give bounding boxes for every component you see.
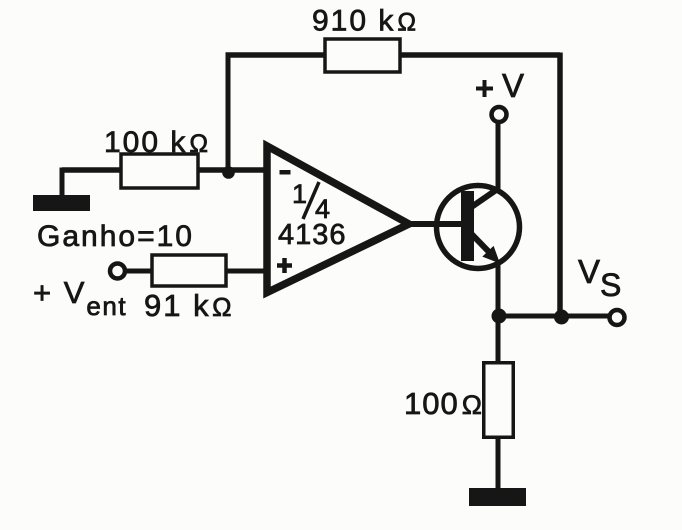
svg-text:1: 1 <box>292 179 307 209</box>
wire collector up <box>496 122 501 190</box>
terminal Vs <box>610 310 625 325</box>
svg-text:V: V <box>502 67 524 104</box>
resistor R4 100 ohm <box>484 363 514 438</box>
resistor R2 910k <box>325 39 400 72</box>
svg-text:91 kΩ: 91 kΩ <box>144 288 234 323</box>
wire emitter down <box>496 262 501 316</box>
ground bottom <box>469 488 526 506</box>
op-amp U1 1/4 4136 <box>267 146 409 293</box>
node feedback junction <box>554 310 569 325</box>
resistor R1 100k <box>121 154 198 188</box>
svg-text:100Ω: 100Ω <box>404 386 483 421</box>
wire feedback top horizontal <box>226 52 561 58</box>
transistor Q1 <box>437 186 520 269</box>
wire to R4 <box>496 316 501 362</box>
terminal Vent <box>110 264 125 279</box>
wire R4 to ground <box>496 438 501 490</box>
node inverting junction <box>222 166 235 179</box>
wire ground stub <box>60 168 65 199</box>
svg-text:100 kΩ: 100 kΩ <box>104 126 210 159</box>
node emitter junction <box>492 309 507 324</box>
svg-text:4136: 4136 <box>278 219 347 251</box>
wire output horizontal <box>498 314 608 319</box>
ground left <box>33 195 90 211</box>
wire op-amp output to base <box>410 221 463 227</box>
wire feedback right vertical <box>557 53 563 317</box>
wire inverting input <box>62 167 265 173</box>
svg-text:910 kΩ: 910 kΩ <box>312 5 418 38</box>
wire feedback left vertical <box>226 53 231 173</box>
label +V <box>476 67 524 104</box>
svg-text:Ganho=10: Ganho=10 <box>37 220 194 253</box>
wire Vent to R3 <box>125 269 265 274</box>
terminal +V <box>492 107 507 122</box>
resistor R3 91k <box>152 255 226 286</box>
